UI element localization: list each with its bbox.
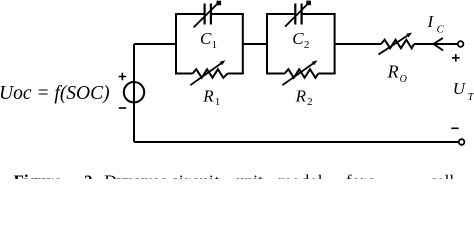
capacitor C1 plates (205, 4, 211, 25)
wire block1 top edge (175, 13, 244, 15)
resistor Ro zigzag (381, 40, 414, 49)
label source minus (119, 107, 126, 109)
capacitor C1 arrow square head (217, 1, 222, 6)
svg-text:2: 2 (304, 39, 310, 51)
wire bottom rail (134, 141, 458, 143)
label source plus (119, 73, 127, 81)
resistor R2 zigzag (285, 69, 319, 78)
svg-text:R: R (202, 87, 214, 106)
wire block2 bottom edge (266, 73, 336, 75)
terminal bottom right (459, 139, 465, 145)
wire block2 right edge (334, 14, 336, 74)
wire block2 left edge (266, 14, 268, 74)
wire block1 bottom edge (175, 73, 244, 75)
wire block2 top edge (266, 13, 336, 15)
wire block2 to Ro (335, 43, 381, 45)
wire top left horizontal (134, 43, 176, 45)
resistor Ro arrow line (379, 35, 409, 54)
svg-text:2: 2 (307, 96, 313, 108)
svg-text:C: C (292, 29, 304, 48)
terminal top right (458, 41, 464, 47)
svg-text:C: C (200, 29, 212, 48)
wire Ro to terminal (414, 43, 457, 45)
capacitor C2 plates (295, 4, 301, 25)
resistor R1 arrow head (220, 60, 226, 65)
capacitor C2 arrow line (285, 3, 308, 26)
label terminal minus (451, 127, 458, 129)
wire block1 right edge (242, 14, 244, 74)
wire left vertical (133, 44, 135, 142)
wire between blocks (243, 43, 267, 45)
svg-text:1: 1 (215, 96, 221, 108)
svg-text:1: 1 (212, 39, 218, 51)
current arrow I_C head (434, 38, 443, 50)
resistor R1 arrow line (190, 63, 221, 85)
resistor Ro arrow head (406, 33, 412, 38)
svg-text:R: R (295, 87, 307, 106)
label terminal plus (452, 54, 460, 62)
svg-text:U: U (453, 79, 467, 98)
svg-text:C: C (437, 23, 445, 35)
svg-text:T: T (468, 91, 474, 103)
resistor R2 arrow line (282, 63, 313, 85)
capacitor C2 arrow square head (306, 1, 311, 6)
resistor R2 arrow head (312, 60, 318, 65)
capacitor C1 arrow line (194, 3, 218, 27)
svg-text:O: O (400, 74, 407, 85)
svg-text:R: R (387, 62, 399, 82)
voltage source U_oc (124, 82, 144, 102)
resistor R1 zigzag (193, 69, 228, 78)
wire block1 left edge (175, 14, 177, 74)
svg-text:Uoc = f(SOC): Uoc = f(SOC) (0, 83, 110, 104)
